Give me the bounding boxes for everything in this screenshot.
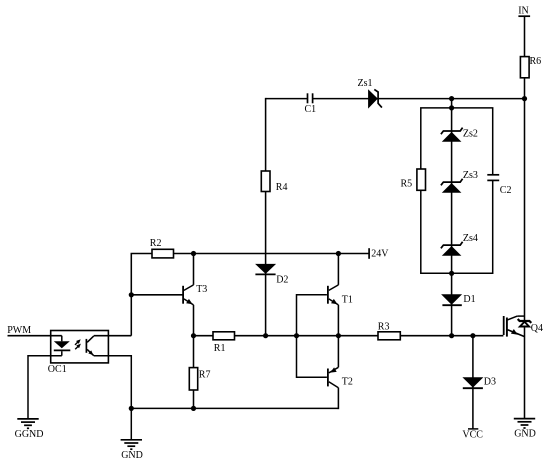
wire optocoupler emitter to GND	[94, 356, 132, 440]
wire R4/D2 branch vertical	[265, 98, 267, 336]
optocoupler OC1	[48, 331, 109, 376]
resistor R3	[378, 322, 401, 340]
svg-text:T2: T2	[342, 376, 353, 387]
transistor T3	[183, 284, 207, 305]
junction top rail / R2 right	[191, 251, 196, 256]
diode D3	[462, 377, 496, 389]
resistor R4	[261, 171, 287, 193]
junction box top / zener stack	[449, 105, 454, 110]
junction D3 / gate wire	[470, 333, 475, 338]
resistor R7	[189, 368, 210, 390]
transistor T2	[328, 367, 353, 387]
svg-text:Zs2: Zs2	[463, 128, 478, 139]
junction bottom rail / R7	[191, 406, 196, 411]
wire optocoupler LED cathode to GGND	[28, 356, 62, 419]
wire zener-stack center vertical	[451, 99, 453, 336]
wire D3 branch vertical to VCC	[472, 336, 474, 430]
wire 24V top rail	[131, 253, 369, 255]
ground GND (right)	[514, 419, 536, 440]
ground GND (left)	[121, 440, 143, 461]
svg-text:Q4: Q4	[531, 323, 543, 334]
junction main-wire / right rail	[522, 96, 527, 101]
zener diode Zs2	[441, 128, 478, 142]
junction bottom rail / GND drop	[129, 406, 134, 411]
svg-text:C2: C2	[500, 185, 512, 196]
svg-text:GND: GND	[514, 429, 536, 440]
zener diode Zs3	[441, 170, 478, 193]
svg-text:R6: R6	[530, 56, 542, 67]
svg-text:Zs4: Zs4	[463, 233, 478, 244]
diode D1	[441, 294, 476, 305]
svg-text:R1: R1	[214, 343, 226, 354]
diode body diode of Q4	[518, 319, 532, 327]
resistor R5	[401, 169, 426, 190]
junction main wire to zener stack	[449, 96, 454, 101]
svg-text:PWM: PWM	[7, 325, 31, 336]
junction D2 / R1 wire	[263, 333, 268, 338]
svg-text:R3: R3	[378, 322, 390, 333]
junction base bracket / mid wire	[294, 333, 299, 338]
ground GGND	[15, 419, 44, 440]
wire T3 base	[131, 294, 182, 296]
wire main horizontal net (right part after C1)	[313, 98, 525, 100]
transistor Q4 (IGBT)	[504, 316, 543, 337]
resistor R2	[150, 238, 174, 258]
svg-text:T3: T3	[196, 284, 207, 295]
svg-text:R4: R4	[276, 182, 288, 193]
svg-text:Zs3: Zs3	[463, 170, 478, 181]
svg-text:IN: IN	[518, 5, 529, 16]
wire PWM input	[8, 335, 62, 337]
junction box bottom / zener stack	[449, 271, 454, 276]
power VCC	[462, 429, 483, 441]
wire IN net vertical right rail	[524, 16, 526, 418]
wire T1 collector	[337, 254, 339, 285]
protection network box outline	[421, 108, 493, 273]
transistor T1	[328, 286, 353, 306]
junction top rail / T1 collector	[336, 251, 341, 256]
wire bottom rail	[131, 407, 338, 409]
svg-text:D3: D3	[484, 377, 496, 388]
capacitor C2	[487, 175, 511, 196]
zener diode Zs4	[441, 233, 478, 256]
svg-text:OC1: OC1	[48, 364, 67, 375]
svg-text:C1: C1	[305, 104, 317, 115]
junction T3 emitter / R1	[191, 333, 196, 338]
svg-text:GGND: GGND	[15, 429, 44, 440]
wire left rail from top rail to optocoupler collector	[130, 254, 132, 336]
wire middle horizontal net R1/R3 to gate	[194, 335, 504, 337]
svg-text:24V: 24V	[371, 249, 389, 260]
diode D2	[255, 264, 288, 285]
svg-text:D1: D1	[463, 294, 475, 305]
power 24V	[369, 248, 389, 259]
zener diode Zs1	[358, 78, 382, 109]
wire T2 emitter to mid node	[337, 336, 339, 368]
junction D1 / gate wire	[449, 333, 454, 338]
svg-text:T1: T1	[342, 295, 353, 306]
resistor R1	[213, 332, 235, 354]
junction T1-T2 emitters / mid wire	[336, 333, 341, 338]
capacitor C1	[305, 93, 317, 115]
wire T3 collector	[193, 254, 195, 285]
wire optocoupler collector output	[94, 335, 132, 337]
svg-text:VCC: VCC	[462, 429, 483, 440]
node IN	[518, 5, 530, 16]
svg-text:GND: GND	[121, 450, 143, 461]
wire T2 collector to bottom rail	[329, 382, 339, 388]
svg-text:D2: D2	[276, 274, 288, 285]
junction left rail / T3 base	[129, 292, 134, 297]
resistor R6	[520, 56, 541, 78]
svg-text:R2: R2	[150, 238, 162, 249]
svg-text:Zs1: Zs1	[358, 78, 373, 89]
wire base bracket of T1/T2	[297, 295, 327, 378]
wire main horizontal net from C1 to right rail (left part)	[266, 98, 308, 100]
svg-text:R7: R7	[199, 369, 211, 380]
wire T1 emitter to mid node	[329, 299, 339, 305]
wire T3 emitter down through R7 to bottom rail	[184, 299, 194, 305]
svg-text:R5: R5	[401, 178, 413, 189]
